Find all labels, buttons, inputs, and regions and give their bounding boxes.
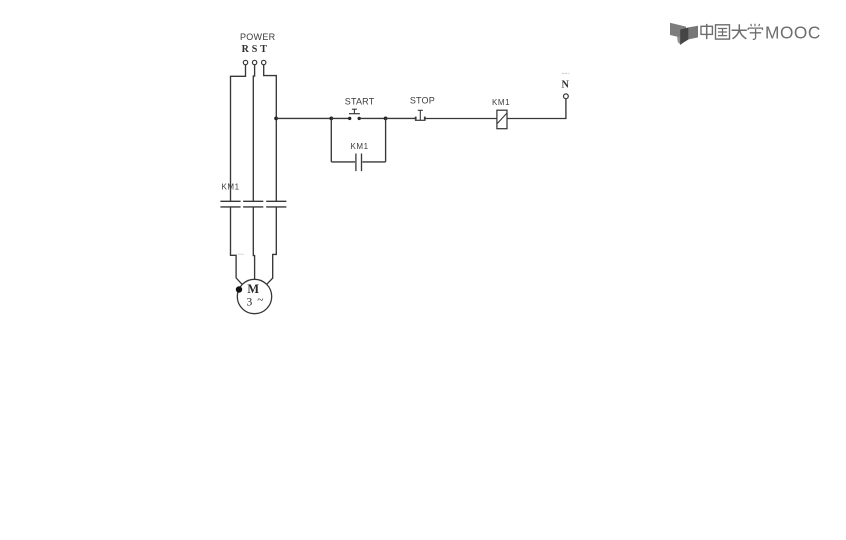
svg-text:STOP: STOP bbox=[410, 96, 435, 106]
logo icon book left page bbox=[670, 23, 686, 39]
pushbutton STOP movable bar bbox=[415, 119, 426, 121]
svg-text:KM1: KM1 bbox=[351, 142, 369, 151]
pushbutton START (NO) contact dots bbox=[348, 117, 351, 120]
wire aux branch bottom right bbox=[362, 161, 385, 163]
svg-text:KM1: KM1 bbox=[222, 183, 240, 192]
svg-text:S: S bbox=[252, 44, 258, 55]
coil KM1 diagonal bbox=[497, 113, 507, 123]
svg-text:START: START bbox=[345, 97, 375, 107]
logo char 学 bbox=[748, 24, 762, 40]
motor M 3~ circle bbox=[237, 279, 271, 313]
logo icon book right page bbox=[689, 26, 698, 40]
terminal T circle bbox=[262, 60, 266, 64]
wire phase S (middle) from terminal to contact bbox=[253, 65, 254, 201]
node branch right bbox=[384, 117, 388, 121]
wire to STOP bbox=[386, 117, 415, 119]
svg-text:T: T bbox=[260, 44, 267, 55]
logo icon book tail bbox=[677, 36, 686, 45]
terminal S circle bbox=[252, 60, 256, 64]
svg-text:3: 3 bbox=[247, 296, 253, 308]
wire STOP to coil bbox=[425, 118, 497, 120]
wire aux branch left vertical bbox=[330, 118, 332, 161]
logo char 国 bbox=[716, 25, 730, 39]
ghost dashes above N bbox=[562, 72, 569, 74]
wire aux branch bottom left bbox=[331, 161, 355, 163]
pushbutton START stem bbox=[353, 109, 355, 114]
logo icon book fold (dark) bbox=[680, 27, 688, 44]
coil KM1 rectangle bbox=[497, 110, 507, 129]
svg-text:R: R bbox=[242, 44, 250, 55]
terminal R circle bbox=[243, 60, 247, 64]
wire phase T (right) from terminal to contact bbox=[264, 65, 277, 201]
svg-text:KM1: KM1 bbox=[492, 98, 510, 107]
wire phase R contact to motor bbox=[231, 207, 243, 284]
pushbutton STOP (NC) contact ticks bbox=[415, 117, 417, 120]
wire phase R (left) from terminal to contact bbox=[231, 65, 246, 201]
logo char 大 bbox=[732, 24, 747, 39]
wire control bus to START branch bbox=[276, 117, 331, 119]
wire coil to N bbox=[507, 99, 566, 119]
svg-text:POWER: POWER bbox=[240, 32, 276, 42]
node dot on motor terminal bbox=[236, 286, 242, 292]
pushbutton STOP stem bbox=[419, 110, 421, 120]
contactor KM1 main contact pole T bbox=[266, 201, 286, 207]
terminal N circle bbox=[564, 94, 569, 99]
svg-text:~: ~ bbox=[257, 295, 263, 307]
ghost mark left step bbox=[238, 253, 245, 255]
wire phase T contact to motor bbox=[267, 207, 277, 284]
wire START to right branch node bbox=[359, 117, 385, 119]
contact KM1 aux (NO) bars bbox=[356, 154, 362, 172]
wire aux branch right vertical bbox=[385, 118, 387, 161]
svg-text:MOOC: MOOC bbox=[765, 22, 821, 42]
svg-text:N: N bbox=[561, 80, 569, 91]
contactor KM1 main contact pole R bbox=[220, 201, 240, 207]
wire branch to START bbox=[331, 117, 348, 119]
node junction on T line bbox=[274, 117, 278, 121]
pushbutton START handle bbox=[352, 108, 357, 110]
wire phase S contact to motor bbox=[253, 207, 254, 279]
contactor KM1 main contact pole S bbox=[243, 201, 263, 207]
pushbutton STOP handle bbox=[418, 109, 423, 111]
node branch left bbox=[329, 117, 333, 121]
pushbutton START bridge bar bbox=[349, 113, 360, 115]
logo char 中 bbox=[701, 24, 712, 39]
